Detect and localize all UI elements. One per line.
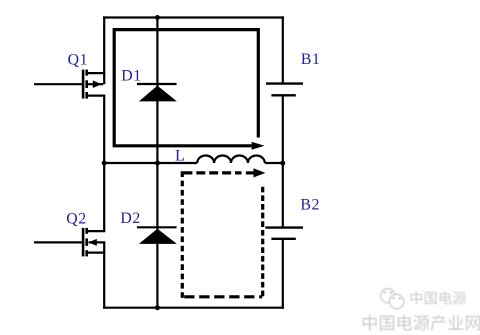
node: bottom rail / D2 junction	[155, 305, 160, 310]
wire: left vertical from Q1 source through mid rail to Q2 drain	[103, 96, 105, 232]
node: mid rail / left vertical junction	[102, 161, 107, 166]
diode D2	[137, 227, 177, 244]
svg-text:Q2: Q2	[66, 211, 87, 228]
svg-text:Q1: Q1	[68, 52, 89, 69]
battery B2	[265, 228, 303, 239]
node: mid rail / D branch junction	[155, 161, 160, 166]
transistor Q1 (N-MOSFET)	[83, 70, 105, 99]
wire: Q1 gate lead	[34, 83, 82, 85]
watermark text: 中国电源	[411, 291, 423, 304]
svg-text:L: L	[175, 146, 186, 164]
node: top rail / D1 junction	[155, 15, 160, 20]
wire: bottom rail	[103, 307, 284, 309]
transistor Q2 (N-MOSFET)	[83, 228, 105, 257]
wire: D2 branch vertical (mid rail to bottom rail)	[156, 163, 158, 309]
node: mid rail / right vertical junction	[280, 161, 285, 166]
svg-text:B1: B1	[301, 51, 321, 68]
wire: left vertical from top rail to Q1 drain/body	[103, 16, 105, 84]
wire: top rail	[103, 16, 284, 18]
diode D1	[137, 84, 177, 101]
svg-text:D2: D2	[120, 210, 141, 227]
wire: B2 minus to bottom rail	[282, 240, 284, 309]
wire: right vertical from top rail to B1 plus	[282, 16, 284, 82]
wire: D1 branch vertical (top rail to mid rail)	[156, 16, 158, 163]
wire: Q2 gate lead	[34, 241, 82, 243]
current loop 2 (dashed, Q2/D1 path)	[182, 168, 265, 298]
wire: left vertical from Q2 body/source to bottom rail	[103, 242, 105, 308]
watermark text: 中国电源产业网	[363, 315, 377, 331]
watermark logo (two chat bubbles)	[381, 289, 404, 309]
svg-text:D1: D1	[121, 67, 142, 84]
battery B1	[266, 84, 303, 96]
wire: mid rail to B2 plus	[282, 163, 284, 227]
wire: mid rail left section	[104, 162, 197, 164]
wire: mid rail right section	[265, 162, 283, 164]
current loop 1 (solid, Q1 conduction path)	[114, 30, 264, 150]
inductor L	[197, 155, 265, 163]
wire: B1 minus to mid rail	[282, 96, 284, 163]
svg-text:B2: B2	[300, 197, 320, 214]
